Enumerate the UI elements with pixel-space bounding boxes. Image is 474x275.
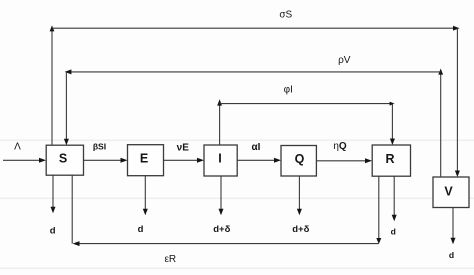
wire rhoV down into S top <box>64 72 69 145</box>
arrow d below V <box>451 208 456 245</box>
wire phiI down into R top <box>390 104 395 145</box>
svg-text:S: S <box>59 152 67 166</box>
svg-text:V: V <box>444 185 453 199</box>
svg-text:Q: Q <box>295 152 305 166</box>
box S <box>46 145 83 175</box>
svg-text:d+δ: d+δ <box>292 224 309 235</box>
svg-text:I: I <box>218 152 221 166</box>
svg-text:νE: νE <box>177 143 190 154</box>
arrow Q to R <box>317 158 372 163</box>
arrow d below E <box>143 176 148 216</box>
arrow d below R <box>392 176 397 221</box>
wire epsilonR down from R bottom <box>376 176 381 244</box>
svg-text:E: E <box>140 152 148 166</box>
svg-text:σS: σS <box>279 9 292 20</box>
arrow I to Q <box>237 158 281 163</box>
box I <box>204 145 237 176</box>
wire epsilonR up into S bottom <box>71 175 73 243</box>
wire rhoV horizontal to left <box>65 69 441 74</box>
arrow Lambda to S <box>3 158 46 163</box>
box Q <box>281 146 316 177</box>
svg-text:Λ: Λ <box>14 142 21 153</box>
wire sigmaS horizontal to right <box>52 26 460 31</box>
svg-text:d: d <box>449 250 454 260</box>
wire sigmaS up from S top <box>50 25 55 145</box>
wire epsilonR horizontal to left <box>73 241 379 246</box>
arrow d+delta below Q <box>297 176 302 215</box>
svg-text:ηQ: ηQ <box>333 141 347 152</box>
arrow E to I <box>164 158 204 163</box>
svg-text:εR: εR <box>164 254 176 265</box>
svg-text:d: d <box>50 226 56 237</box>
svg-text:d: d <box>391 227 396 237</box>
arrow S to E <box>84 158 128 163</box>
svg-text:d+δ: d+δ <box>213 224 230 235</box>
box E <box>128 145 164 176</box>
wire rhoV up from V top <box>438 69 443 178</box>
svg-text:d: d <box>138 224 144 235</box>
svg-text:βSI: βSI <box>93 142 106 152</box>
wire phiI up from I top <box>217 99 222 145</box>
wire phiI horizontal to right <box>220 102 395 106</box>
arrow d+delta below I <box>219 176 224 215</box>
box R <box>372 145 410 176</box>
wire sigmaS down into V top <box>455 28 460 177</box>
svg-text:αI: αI <box>252 142 261 153</box>
arrow d below S <box>51 175 56 213</box>
svg-text:ρV: ρV <box>338 55 351 66</box>
svg-text:φI: φI <box>284 85 293 96</box>
box V <box>433 177 469 208</box>
svg-text:R: R <box>385 152 394 166</box>
